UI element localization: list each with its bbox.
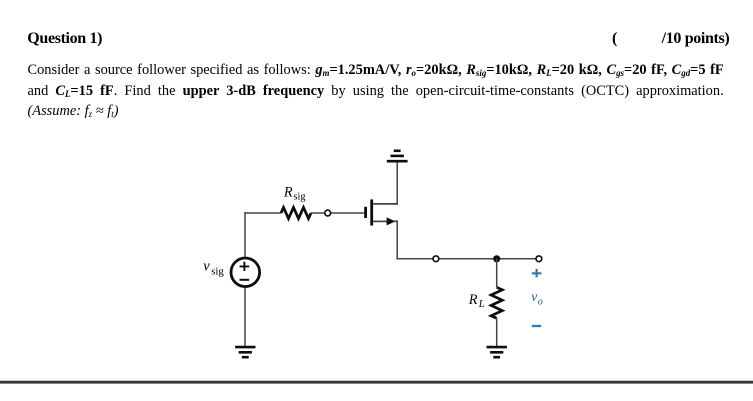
svg-text:R: R (283, 185, 293, 201)
svg-text:sig: sig (294, 192, 306, 203)
wire gate horizontal left (245, 212, 281, 214)
svg-text:v: v (531, 289, 537, 304)
wire gate horizontal right (311, 212, 364, 214)
ground bottom left (235, 347, 255, 357)
svg-text:v: v (203, 258, 210, 274)
wire drain vertical (396, 162, 398, 205)
svg-text:sig: sig (211, 265, 224, 277)
svg-text:o: o (538, 297, 543, 308)
wire source vertical (396, 220, 398, 258)
node source (open) (433, 256, 439, 262)
terminal vo plus (open) (536, 256, 542, 262)
resistor RL (491, 287, 502, 318)
wire RL bottom (496, 318, 498, 346)
ground top (flipped) (387, 151, 408, 161)
wire source-left vertical bottom (244, 288, 246, 346)
label minus (blue) (532, 325, 541, 327)
wire source-left vertical top (244, 212, 246, 258)
label plus (blue) (532, 269, 542, 277)
wire output horizontal (396, 258, 539, 260)
ground bottom right (487, 347, 507, 357)
svg-text:L: L (478, 299, 485, 310)
node gate (open) (325, 210, 331, 216)
transistor M1 (364, 199, 397, 225)
bottom rule (0, 381, 753, 384)
wire RL top (496, 259, 498, 288)
node output junction (493, 255, 500, 262)
svg-text:R: R (468, 292, 478, 308)
resistor Rsig (281, 207, 311, 218)
voltage source vsig (231, 258, 260, 287)
